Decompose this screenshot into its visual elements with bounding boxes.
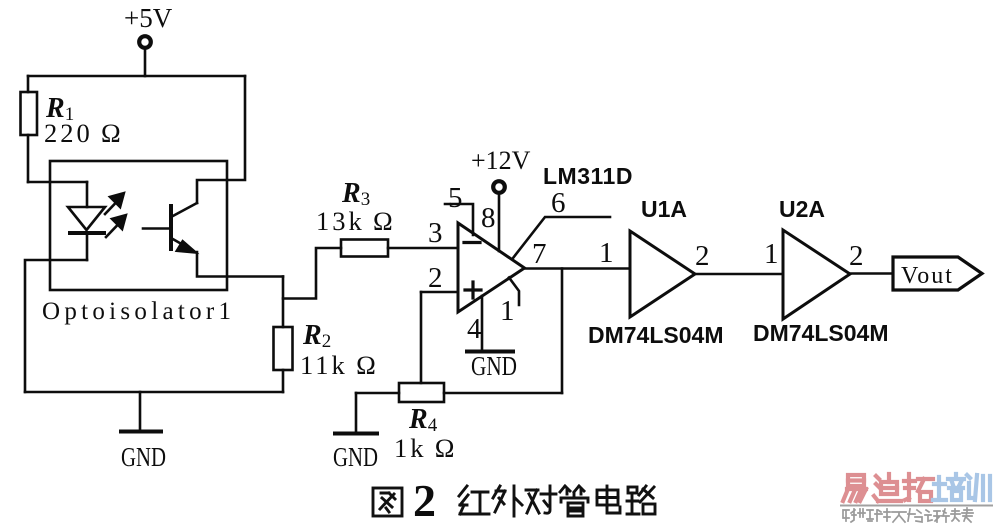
wire LED cathode return (25, 260, 87, 392)
watermark char pei (933, 474, 964, 500)
svg-text:1: 1 (764, 238, 779, 270)
resistor R4 (356, 383, 562, 402)
LED light arrow 2 (106, 214, 127, 237)
optoisolator box (50, 161, 227, 290)
wire U2A to Vout (850, 272, 893, 275)
resistor R3 (341, 240, 388, 257)
wire R3 to comparator pin3 (388, 247, 458, 250)
pin 4 lead (481, 296, 484, 351)
svg-text:5: 5 (448, 182, 463, 214)
inverter U1A (630, 231, 695, 317)
svg-text:13k Ω: 13k Ω (316, 206, 396, 236)
pin 5 lead (445, 204, 473, 235)
watermark logo yiditop training (841, 474, 992, 522)
wire +5V top rail (28, 75, 245, 78)
LED light arrow 1 (105, 192, 125, 214)
wire R1 to LED anode (28, 181, 87, 184)
svg-text:1k Ω: 1k Ω (394, 433, 458, 463)
caption char dui (pair) (526, 486, 556, 513)
caption char dian (electric) (597, 486, 620, 513)
svg-text:Vout: Vout (901, 263, 954, 289)
caption char tu (figure) (373, 488, 402, 516)
svg-text:GND: GND (471, 351, 517, 381)
svg-text:GND: GND (121, 442, 166, 472)
wire tap emitter node to R3 (283, 248, 341, 299)
wire collector to +5V rail (197, 76, 245, 203)
wire output feedback to R4 (561, 269, 564, 394)
inverter U2A (783, 230, 850, 319)
watermark char di (874, 474, 901, 501)
svg-text:2: 2 (428, 262, 443, 294)
svg-text:7: 7 (532, 238, 547, 270)
svg-text:U1A: U1A (641, 196, 687, 222)
op-amp U? comparator LM311D triangle (458, 223, 525, 312)
phototransistor (opto detector) (143, 203, 198, 254)
watermark char tuo (904, 474, 933, 501)
pin 6 lead (513, 217, 610, 258)
svg-text:+12V: +12V (471, 146, 531, 175)
caption char lu (road) (627, 486, 655, 514)
wire pin2 input (421, 291, 458, 294)
svg-text:11k Ω: 11k Ω (300, 350, 379, 380)
resistor R2 (274, 277, 293, 393)
watermark tagline rf antenna experts (843, 508, 973, 522)
svg-text:2: 2 (413, 475, 436, 526)
ground GND2 (R4) (335, 393, 377, 434)
watermark underline (841, 505, 992, 507)
wire emitter down and out (197, 252, 283, 277)
svg-text:4: 4 (467, 313, 482, 345)
LED (opto emitter) (68, 182, 105, 260)
ground GND1 (bus) (121, 392, 161, 432)
caption char hong (red) (459, 486, 489, 514)
node Vout port flag (893, 257, 982, 290)
power +12V terminal (493, 181, 505, 251)
watermark char yi (843, 475, 866, 501)
caption char guan (tube) (560, 486, 588, 516)
svg-text:GND: GND (333, 442, 378, 472)
plus input mark (465, 282, 481, 298)
svg-text:2: 2 (695, 240, 710, 272)
svg-text:3: 3 (428, 217, 443, 249)
svg-text:6: 6 (551, 187, 566, 219)
svg-text:1: 1 (500, 295, 515, 327)
minus input mark (464, 241, 480, 244)
svg-text:LM311D: LM311D (543, 163, 633, 189)
wire U1A to U2A (695, 273, 783, 276)
caption: figure 2 chinese title 图2红外对管电路 (373, 475, 655, 526)
svg-text:U2A: U2A (779, 196, 825, 222)
power +5V terminal (139, 36, 151, 76)
pin 1 lead (509, 278, 519, 306)
svg-text:1: 1 (599, 237, 614, 269)
svg-text:8: 8 (481, 202, 496, 234)
watermark char xun (967, 475, 990, 500)
caption char wai (outside) (493, 486, 522, 516)
ground GND3 (comparator pin4) (467, 350, 513, 354)
wire bottom ground bus (25, 391, 283, 394)
svg-text:+5V: +5V (124, 3, 173, 33)
svg-text:220 Ω: 220 Ω (44, 118, 124, 148)
svg-text:2: 2 (849, 240, 864, 272)
resistor R1 (21, 76, 38, 182)
wire comparator output to U1A (525, 267, 631, 270)
svg-text:DM74LS04M: DM74LS04M (588, 322, 723, 348)
svg-text:DM74LS04M: DM74LS04M (753, 320, 888, 346)
